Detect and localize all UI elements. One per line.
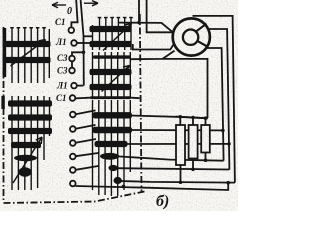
switch arm 5	[76, 153, 99, 156]
wire A horizontal into machine	[119, 23, 173, 33]
right winding thin row C1 level	[90, 96, 131, 99]
left stack blob 6	[19, 167, 32, 177]
svg-text:С1: С1	[56, 93, 67, 103]
machine U inner rotor circle	[183, 30, 198, 45]
left stack bar 2	[8, 114, 52, 120]
resistor R3 lead top	[205, 118, 207, 125]
right winding tick group top	[93, 18, 132, 51]
right winding thin bar mid	[93, 55, 131, 58]
resistor R1 body	[176, 125, 185, 165]
junction R1 bottom	[179, 180, 183, 184]
resistor R3 body	[201, 125, 210, 153]
junction R2 top	[191, 116, 195, 120]
switch arm 6	[76, 166, 99, 170]
svg-text:б): б)	[156, 193, 169, 210]
right winding column	[90, 17, 133, 196]
machine U left wire A from top	[138, 0, 140, 23]
left winding bar 1	[5, 41, 51, 47]
handle travel arrow left	[52, 2, 66, 8]
enclosure dash-dot border bottom side	[4, 191, 147, 203]
wire stub at y36	[84, 35, 93, 37]
right winding bar A2	[90, 41, 132, 47]
handle travel arrow right	[84, 1, 98, 6]
right stack bar 1	[93, 112, 133, 118]
movable contact 3	[70, 126, 76, 132]
resistor R3 lead bottom	[205, 153, 207, 161]
machine right wire middle	[208, 29, 230, 170]
wire row 6 from winding to H3	[121, 181, 235, 183]
junction R1 top	[179, 115, 183, 119]
adjust arrow right group A	[103, 24, 132, 51]
wire Л1 lower to bus	[77, 85, 84, 87]
junction row4 on vertical Vb	[227, 142, 231, 146]
junction R3 bottom	[204, 158, 208, 162]
machine U outer stator circle	[173, 18, 210, 55]
svg-text:Л1: Л1	[56, 81, 68, 91]
wire С3 up to bus	[72, 52, 84, 56]
switch arm on С1 lower	[75, 97, 90, 100]
left stack bar 1	[8, 100, 52, 106]
machine right wire lower	[206, 48, 223, 161]
wire row 4	[126, 143, 229, 145]
wire supply 2 vertical bus to L1 contacts	[81, 0, 84, 86]
right winding mid tick row	[93, 52, 131, 97]
right stack bar 3	[95, 141, 128, 147]
switch arm 2	[76, 110, 96, 114]
right winding bar A1	[90, 26, 132, 32]
junction row3 on vertical Vc	[221, 129, 225, 133]
right winding bar B2	[90, 84, 132, 90]
movable contact 7	[70, 181, 76, 187]
left stack blob 5	[14, 155, 37, 161]
left bus thick vertical	[3, 28, 7, 77]
right stack bar 2	[93, 127, 133, 133]
right stack blob 6	[114, 177, 122, 184]
right stack blob 4	[100, 153, 119, 160]
machine brush radial upper	[196, 24, 206, 32]
adjust arrow left stack	[13, 137, 42, 183]
wire row to resistor bus	[130, 116, 208, 119]
resistor R1 lead bottom	[180, 165, 182, 182]
svg-text:С1: С1	[55, 17, 66, 27]
resistor top bus wire	[176, 117, 208, 119]
resistor R1 lead top	[179, 117, 181, 125]
junction R3 top	[204, 116, 208, 120]
adjust arrow left group1	[11, 40, 46, 67]
enclosure dash-dot border left side	[3, 27, 5, 202]
right stack blob 5	[109, 165, 118, 171]
left winding tick caps	[10, 27, 46, 29]
left stack tick group	[12, 96, 50, 190]
svg-text:Л1: Л1	[55, 37, 67, 47]
left winding column	[1, 27, 52, 190]
machine left wire B from top	[147, 0, 173, 32]
left bus lower blob	[1, 96, 4, 109]
svg-text:С3: С3	[57, 53, 68, 63]
junction H3 right	[226, 181, 230, 185]
wire Л1 upper to bus	[77, 42, 92, 44]
wire link between С3 contacts	[71, 61, 73, 68]
svg-text:С3: С3	[57, 66, 68, 76]
junction R2 bottom	[191, 168, 195, 172]
junction wire A	[137, 21, 141, 25]
wire row 7 bottom	[75, 183, 228, 190]
movable contact 2	[70, 112, 76, 118]
svg-text:0: 0	[67, 6, 72, 17]
wire supply 1 from top to contact C1	[71, 0, 77, 28]
movable contact 4	[70, 140, 76, 146]
junction on bus at 52.3	[82, 51, 86, 55]
enclosure dash-dot border right side	[140, 14, 142, 192]
wire row 3	[130, 129, 223, 131]
resistor R2 body	[189, 125, 198, 159]
switch arm 3	[76, 125, 96, 129]
left stack bar 4	[11, 142, 41, 148]
wire from С1 lower arm	[90, 97, 140, 100]
adjust arrow right group B	[102, 66, 130, 92]
movable contact 6	[70, 167, 76, 173]
wire row 6	[117, 168, 229, 169]
movable contact 5	[70, 154, 76, 160]
machine right wire top	[193, 16, 235, 183]
left stack bar 3	[8, 128, 52, 134]
left winding tick group top	[12, 28, 49, 84]
right stack tick group	[93, 100, 131, 196]
junction on bottom wire	[122, 185, 126, 189]
switch arm 4	[76, 139, 96, 143]
resistor R2 lead top	[192, 118, 194, 126]
resistor R2 lead bottom	[192, 159, 194, 170]
machine bottom tangent wire to resistor bus	[131, 51, 208, 118]
machine left wire C from winding	[133, 43, 175, 49]
wire row 5	[118, 156, 224, 160]
machine brush radial lower	[198, 41, 208, 47]
left winding bar 2	[5, 57, 51, 63]
right winding bar B1	[90, 69, 132, 75]
right winding tick caps	[98, 17, 133, 19]
